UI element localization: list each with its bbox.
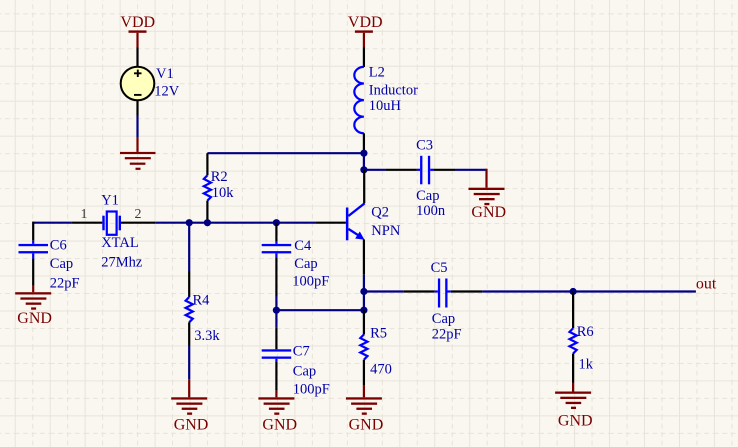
main bus wire (left corner to transistor base) <box>33 222 71 224</box>
svg-text:GND: GND <box>471 204 506 221</box>
node C4/C7 <box>273 307 280 314</box>
svg-text:Cap: Cap <box>293 363 316 379</box>
svg-text:NPN: NPN <box>371 223 401 239</box>
transistor Q2 <box>315 170 400 292</box>
svg-text:3.3k: 3.3k <box>194 328 220 344</box>
node emitter / C5 <box>360 288 367 295</box>
svg-text:GND: GND <box>558 413 593 430</box>
svg-text:Cap: Cap <box>294 256 317 272</box>
svg-text:10uH: 10uH <box>369 98 402 114</box>
ground under R4 <box>171 379 208 433</box>
capacitor C5 <box>403 260 482 342</box>
node R6 <box>570 288 577 295</box>
ground under C6 <box>15 286 52 327</box>
power port VDD (right) <box>348 14 383 67</box>
svg-text:100pF: 100pF <box>293 381 330 397</box>
svg-text:12V: 12V <box>154 84 180 100</box>
wire C4 bottom to node <box>275 296 277 310</box>
node R4 <box>186 219 193 226</box>
wire node to C3 node <box>363 153 365 170</box>
svg-text:GND: GND <box>262 417 297 434</box>
wire node to C3 <box>364 169 386 171</box>
resistor R5 <box>360 310 392 385</box>
svg-text:C7: C7 <box>293 344 310 360</box>
capacitor C4 <box>262 238 330 296</box>
wire bus corner down to C6 <box>32 222 34 241</box>
wire crystal pin2 <box>121 222 155 224</box>
svg-text:XTAL: XTAL <box>101 235 139 251</box>
voltage source V1 <box>121 66 180 116</box>
resistor R4 <box>186 223 221 380</box>
svg-text:R6: R6 <box>577 324 594 340</box>
L2 pin 2 <box>363 133 365 152</box>
resistor R2 <box>204 153 235 223</box>
ground under C7 <box>258 391 297 434</box>
ground at C3 <box>469 169 507 221</box>
node at L2 bottom <box>360 150 367 157</box>
svg-text:R5: R5 <box>370 326 387 342</box>
svg-text:C6: C6 <box>50 238 67 254</box>
svg-text:100n: 100n <box>416 203 446 219</box>
svg-text:Cap: Cap <box>50 256 73 272</box>
resistor R6 <box>570 292 594 383</box>
wire R2-top to L2-bottom <box>207 152 364 154</box>
svg-text:22pF: 22pF <box>432 327 462 343</box>
inductor L2 <box>354 64 418 152</box>
wire crystal pin1 <box>71 222 102 224</box>
wire C4 top <box>275 223 277 241</box>
wire V1 to ground <box>136 116 138 138</box>
svg-text:R2: R2 <box>211 169 228 185</box>
node at C3 branch <box>360 166 367 173</box>
svg-text:Cap: Cap <box>432 311 455 327</box>
svg-text:out: out <box>696 276 717 293</box>
svg-text:Y1: Y1 <box>101 193 119 209</box>
wire C3 to ground <box>455 169 487 171</box>
svg-text:R4: R4 <box>193 293 211 309</box>
svg-text:GND: GND <box>349 417 384 434</box>
svg-text:C5: C5 <box>431 260 448 276</box>
wire emitter node down <box>363 292 365 311</box>
svg-text:Cap: Cap <box>416 188 439 204</box>
capacitor C6 <box>19 238 80 292</box>
node R2 <box>204 219 211 226</box>
capacitor C7 <box>262 328 330 398</box>
svg-text:22pF: 22pF <box>50 276 80 292</box>
node emitter lower <box>360 307 367 314</box>
svg-text:Q2: Q2 <box>371 205 389 221</box>
svg-text:27Mhz: 27Mhz <box>101 255 143 271</box>
wire pin2 to base <box>155 222 315 224</box>
svg-text:C4: C4 <box>294 238 312 254</box>
svg-text:V1: V1 <box>156 66 174 82</box>
svg-text:GND: GND <box>174 417 209 434</box>
svg-text:1k: 1k <box>579 357 594 373</box>
svg-text:GND: GND <box>17 310 52 327</box>
ground under R5 <box>346 385 383 434</box>
svg-text:2: 2 <box>135 207 142 222</box>
wire C7 top <box>275 310 277 328</box>
svg-text:10k: 10k <box>212 185 235 201</box>
svg-text:L2: L2 <box>369 64 385 80</box>
svg-text:100pF: 100pF <box>292 274 329 290</box>
crystal Y1 <box>81 193 143 271</box>
wire C5 to out <box>482 290 696 292</box>
svg-text:1: 1 <box>81 207 88 222</box>
svg-text:470: 470 <box>370 362 392 378</box>
capacitor C3 <box>385 138 455 219</box>
svg-text:VDD: VDD <box>348 14 383 31</box>
svg-text:VDD: VDD <box>120 14 155 31</box>
node C4 <box>273 219 280 226</box>
ground under V1 <box>120 137 156 170</box>
wire node to C5 <box>364 290 403 292</box>
svg-text:Inductor: Inductor <box>369 82 418 98</box>
svg-text:C3: C3 <box>416 138 433 154</box>
power port VDD (left) <box>120 14 155 67</box>
wire node to emitter node <box>276 309 364 311</box>
ground under R6 <box>555 383 592 430</box>
